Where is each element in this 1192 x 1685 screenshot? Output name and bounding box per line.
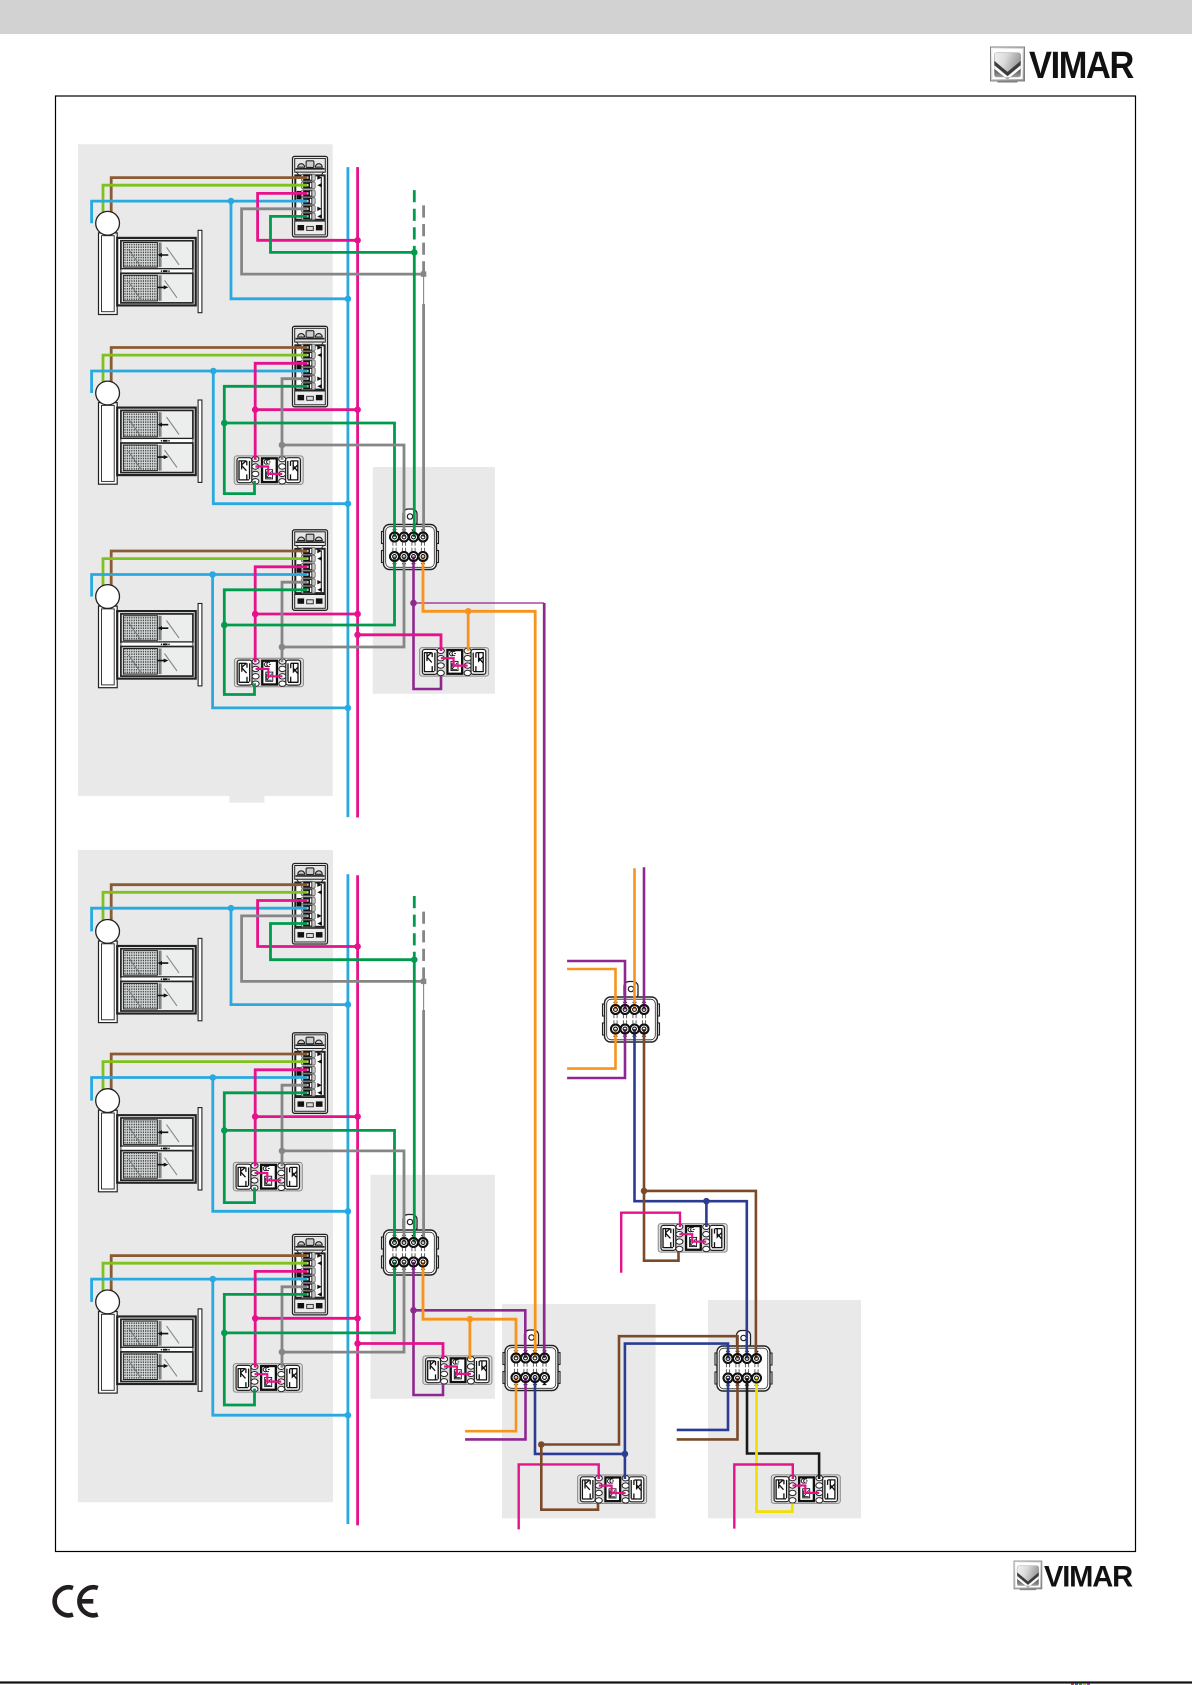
wire gray group 1 — [242, 209, 424, 274]
gate 2 (sliding gate drawing) — [99, 400, 202, 484]
VIMAR logo top — [991, 47, 1025, 83]
gray riser into D2-4 top (thin lead) — [423, 981, 425, 1010]
wire pink to relay R9 — [734, 1465, 793, 1529]
wire blue group 3 to riser — [213, 575, 348, 708]
wire green group 2 — [224, 386, 307, 493]
relay interface module R7 — [658, 1224, 727, 1253]
bus wire: cable riser 2 (magenta) bottom section — [356, 875, 359, 1525]
wire purple from D1-3 bottom — [412, 557, 415, 604]
VIMAR logo bottom — [1014, 1561, 1042, 1590]
wire navy branch to relay R8 — [624, 1454, 627, 1479]
relay interface module R9 — [771, 1475, 840, 1504]
dashed gray riser above D2 — [422, 912, 425, 982]
wire magenta group 5 — [255, 1070, 307, 1167]
entrance zone panel 2 (bottom-left group of 3 gates) — [78, 850, 333, 1502]
wire yellow-green group 1 — [103, 185, 308, 223]
wire blue group 1 to riser — [231, 201, 348, 299]
wire gray group 4 — [242, 916, 424, 982]
wire gray group6 to D2-2 bottom — [282, 1262, 404, 1352]
wire orange stub to D4-1 top — [567, 969, 615, 1010]
wire purple to relay R6 — [414, 1310, 444, 1395]
entrance module 1 (flush actuator) — [293, 156, 328, 237]
gray riser into D1-4 top — [422, 304, 425, 537]
wire green group2 to D1-1 top — [224, 423, 394, 537]
relay interface module R2 — [234, 658, 303, 687]
wire green group 5 — [224, 1093, 307, 1203]
wire brown group 5 — [111, 1054, 307, 1101]
dashed green riser above D1 — [413, 190, 416, 252]
wire magenta group 2 — [255, 363, 307, 460]
wire gray group 3 — [282, 582, 308, 662]
bus wire: cable riser 1 (cyan) bottom section — [346, 874, 349, 1524]
wire dark-brown stub from D6-2 bottom — [677, 1378, 738, 1439]
dashed green riser above D2 — [413, 896, 416, 960]
relay interface module R8 — [578, 1475, 647, 1504]
callout bubble 3 — [96, 585, 120, 609]
wire green group 1 — [271, 216, 415, 252]
wire brown group 6 — [111, 1256, 307, 1302]
wire orange from D2-4 bottom — [423, 1262, 516, 1358]
wire brown group 2 — [111, 348, 307, 394]
wire green group6 to D2-1 bottom — [224, 1262, 394, 1333]
entrance module 2 (flush actuator) — [293, 326, 328, 407]
gate 5 (sliding gate drawing) — [99, 1108, 202, 1192]
callout bubble 5 — [96, 1089, 120, 1113]
riser zone panel (bottom right) — [708, 1300, 861, 1518]
wire blue group 3 — [92, 575, 308, 597]
wire navy from D4-3 bottom — [635, 1029, 747, 1359]
riser zone panel (bottom centre) — [502, 1304, 656, 1518]
wire green group 4 — [271, 924, 415, 960]
wire gray group2 to D1-2 top — [282, 445, 404, 537]
wire pink to relay R8 — [519, 1464, 599, 1529]
wire magenta group 1 — [258, 193, 358, 240]
main diagram border — [56, 96, 1136, 1552]
relay interface module R1 — [234, 456, 303, 485]
green riser into D2-3 top — [413, 960, 416, 1243]
bottom rule — [0, 1681, 1192, 1683]
wire blue group 6 to riser — [213, 1279, 348, 1415]
wire magenta riser to relay R3 — [358, 635, 441, 651]
relay interface module R3 — [420, 648, 489, 677]
relay interface module R6 — [423, 1356, 492, 1385]
wire dark-brown to relay R7 — [644, 1191, 679, 1261]
wire navy from D5-3 bottom to R8/D6 — [535, 1378, 625, 1454]
wire magenta group 2 to riser — [255, 408, 357, 411]
wire yellow-green group 3 — [103, 559, 308, 597]
wire green group 6 — [224, 1294, 307, 1405]
wire dark-brown from D4-4 bottom — [644, 1029, 756, 1359]
distributor D2 (bottom riser node) — [382, 1215, 439, 1276]
distributor terminal rings overlay — [390, 533, 399, 542]
wire gray group 6 — [282, 1287, 308, 1368]
wire gray group3 to D1-2 bottom — [282, 557, 404, 648]
wire yellow-green group 4 — [103, 892, 308, 931]
wire navy to relay R7 — [705, 1201, 708, 1227]
wire junction dots — [228, 198, 235, 205]
bus wire: cable riser 2 (magenta) top section — [356, 167, 359, 817]
callout bubble 2 — [96, 381, 120, 405]
gate 6 (sliding gate drawing) — [99, 1309, 202, 1393]
wire purple riser to D4-4 top — [643, 867, 646, 1009]
entrance module 3 (flush actuator) — [293, 530, 328, 611]
dashed gray riser above D1 — [422, 205, 425, 274]
wire purple riser to D5-4 top — [543, 603, 546, 1358]
wire yellow-green group 5 — [103, 1062, 308, 1101]
wire magenta group 6 to riser — [255, 1317, 357, 1320]
gate 1 (sliding gate drawing) — [99, 230, 202, 314]
gray riser into D2-4 top — [422, 1010, 425, 1243]
wire orange stub from D5-1 bottom — [465, 1378, 516, 1432]
wire magenta group 5 to riser — [255, 1115, 357, 1118]
green riser into D1-3 top — [413, 252, 416, 537]
wire yellow-green group 2 — [103, 355, 308, 393]
wire orange to relay R6 — [468, 1319, 471, 1359]
entrance zone panel 1 (top-left group of 3 gates) — [78, 144, 333, 796]
callout bubble 1 — [96, 211, 120, 235]
wire purple thin run to riser — [414, 602, 545, 604]
wire magenta group 3 to riser — [255, 613, 357, 616]
wire magenta group 6 — [255, 1271, 307, 1367]
wire purple stub from D5-2 bottom — [465, 1378, 525, 1440]
CE mark — [55, 1587, 98, 1615]
wire purple stub from D4-2 bottom — [567, 1029, 625, 1078]
wire magenta group 3 — [255, 567, 307, 663]
gate 4 (sliding gate drawing) — [99, 938, 202, 1022]
distributor D4 (floor node right) — [603, 982, 660, 1043]
gray riser into D1-4 top (thin lead) — [423, 274, 425, 304]
wire navy stub from D6-1 bottom — [677, 1378, 728, 1430]
wire brown group 3 — [111, 551, 307, 597]
wire blue group 5 to riser — [213, 1078, 348, 1212]
wire orange to relay R3 — [467, 611, 470, 651]
wire yellow from D6-4 bottom to relay R9 — [757, 1378, 793, 1512]
wire yellow-green group 6 — [103, 1263, 308, 1302]
wire blue group 4 to riser — [231, 908, 348, 1004]
distributor D6 (bottom right node) — [715, 1331, 772, 1392]
entrance module 4 (flush actuator) — [293, 864, 328, 945]
wire purple stub to D4-2 top — [567, 961, 625, 1010]
wire orange stub from D4-1 bottom — [567, 1029, 615, 1069]
wire green group5 to D2-1 top — [224, 1130, 394, 1242]
wire purple to relay R3 — [414, 603, 442, 689]
relay interface module R5 — [233, 1364, 302, 1393]
distributor zone panel (top) — [373, 467, 495, 694]
distributor zone panel (bottom) — [371, 1175, 495, 1399]
gate 3 (sliding gate drawing) — [99, 604, 202, 688]
wire magenta riser to relay R6 — [358, 1344, 443, 1360]
wire gray group 5 — [282, 1085, 308, 1166]
callout bubble 4 — [96, 920, 120, 944]
svg-text:VIMAR: VIMAR — [1044, 1561, 1133, 1594]
wire orange riser to D4-3 top — [633, 868, 636, 1009]
wire navy branch up to D6-1 top — [625, 1344, 728, 1454]
distributor D1 (top riser node) — [382, 509, 439, 570]
wire black from D6-3 bottom to relay R9 — [747, 1378, 819, 1479]
wire blue group 2 to riser — [213, 371, 348, 504]
bus wire: cable riser 1 (cyan) top section — [346, 167, 349, 817]
wire blue group 1 — [92, 201, 308, 223]
wire brown group 1 — [111, 178, 307, 224]
callout bubble 6 — [96, 1290, 120, 1314]
wire brown group 4 — [111, 885, 307, 932]
wire blue group 6 — [92, 1279, 308, 1302]
wire green group3 to D1-1 bottom — [224, 557, 394, 626]
wire magenta group 4 — [258, 901, 358, 947]
wire pink to relay R7 — [621, 1213, 680, 1273]
entrance module 5 (flush actuator) — [293, 1033, 328, 1114]
svg-text:VIMAR: VIMAR — [1029, 45, 1134, 87]
relay interface module R4 — [233, 1162, 302, 1191]
wire dark-brown D6-2 top to relay R8 — [541, 1336, 737, 1510]
distributor D5 (bottom centre node) — [503, 1330, 560, 1391]
wire purple from D2-3 bottom — [414, 1262, 526, 1358]
wire blue group 2 — [92, 371, 308, 393]
wire gray group5 to D2-2 top — [282, 1151, 404, 1243]
page header bar — [0, 0, 1192, 34]
wire gray group 2 — [282, 379, 308, 460]
entrance module 6 (flush actuator) — [293, 1234, 328, 1315]
wire green group 3 — [224, 590, 307, 695]
wire blue group 4 — [92, 908, 308, 931]
wire blue group 5 — [92, 1078, 308, 1101]
wire orange from D1-4 bottom — [423, 557, 535, 1359]
